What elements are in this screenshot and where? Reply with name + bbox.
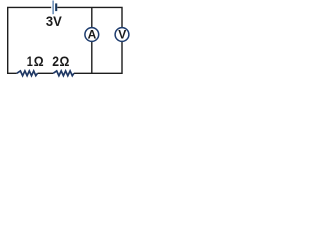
svg-text:3V: 3V xyxy=(46,13,62,29)
svg-text:2: 2 xyxy=(52,53,59,69)
svg-text:V: V xyxy=(118,28,126,42)
svg-text:A: A xyxy=(88,28,97,42)
svg-text:1: 1 xyxy=(27,54,33,70)
svg-text:Ω: Ω xyxy=(34,53,44,69)
svg-text:Ω: Ω xyxy=(60,53,70,69)
